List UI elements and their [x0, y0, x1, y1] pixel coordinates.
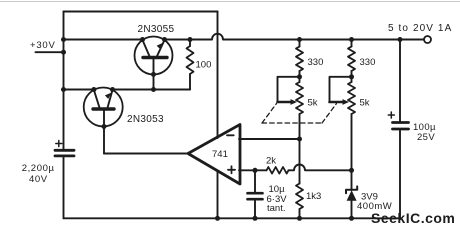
svg-text:2,200µ: 2,200µ: [22, 163, 55, 174]
wire 2N3055 collector from left rail: [64, 39, 143, 41]
svg-text:330: 330: [360, 57, 376, 68]
wire 2N3053 base to op-amp output: [104, 153, 188, 155]
wire output rail with hop over V+ lead: [165, 34, 425, 40]
resistor 1k3: [296, 184, 303, 221]
wire pot1 bottom to inverting input and 1k3: [299, 114, 301, 184]
wire left vertical rail (upper part): [63, 12, 65, 149]
svg-text:330: 330: [308, 57, 324, 68]
svg-text:2N3053: 2N3053: [127, 114, 164, 125]
svg-text:tant.: tant.: [267, 203, 286, 214]
svg-text:5 to 20V 1A: 5 to 20V 1A: [388, 23, 452, 34]
svg-text:741: 741: [212, 149, 228, 160]
wire left vertical rail (lower part): [63, 157, 65, 218]
capacitor C3 100u: [388, 40, 408, 219]
resistor 330 second: [348, 40, 355, 83]
wire 741 non-inverting input with hop over feedback line: [239, 169, 267, 171]
scan artifact top edge line: [0, 1, 460, 3]
output terminal circle: [424, 36, 431, 43]
node +30V input stub: [36, 51, 64, 53]
resistor 330 first: [296, 40, 303, 83]
svg-text:2N3055: 2N3055: [138, 24, 175, 35]
capacitor C2 10u tant: [248, 170, 263, 221]
svg-text:5k: 5k: [360, 97, 370, 108]
svg-text:25V: 25V: [417, 132, 435, 143]
wire 2N3053 emitter to 2N3055 base: [113, 89, 191, 91]
svg-text:100: 100: [196, 60, 212, 71]
wire 741 V+ lead from top rail: [217, 12, 219, 139]
potentiometer VR2 5k: [330, 77, 356, 114]
potentiometer VR1 5k: [278, 77, 304, 114]
wire 2N3053 collector from left rail: [64, 89, 94, 91]
svg-text:+30V: +30V: [30, 40, 56, 51]
transistor Q2 2N3053: [84, 87, 123, 154]
op-amp U1 741: [188, 125, 240, 185]
wire 741 inverting input: [239, 138, 300, 140]
svg-text:40V: 40V: [29, 174, 48, 185]
svg-text:SeekIC.com: SeekIC.com: [371, 210, 455, 226]
wire pot2 bottom to zener node: [351, 114, 353, 170]
dashed gang link between pots: [262, 104, 337, 124]
resistor 2k: [267, 167, 289, 174]
zener diode D1 3V9: [346, 170, 357, 221]
wire top rail +30V: [64, 11, 218, 13]
wire bottom ground rail: [64, 217, 401, 219]
svg-text:2k: 2k: [266, 156, 276, 167]
svg-text:5k: 5k: [308, 97, 318, 108]
resistor 100: [187, 40, 194, 90]
wire 741 V- lead to ground rail: [217, 171, 219, 219]
capacitor C1 2200u: [55, 141, 74, 156]
transistor Q1 2N3055: [135, 37, 173, 93]
svg-text:1k3: 1k3: [306, 191, 321, 202]
